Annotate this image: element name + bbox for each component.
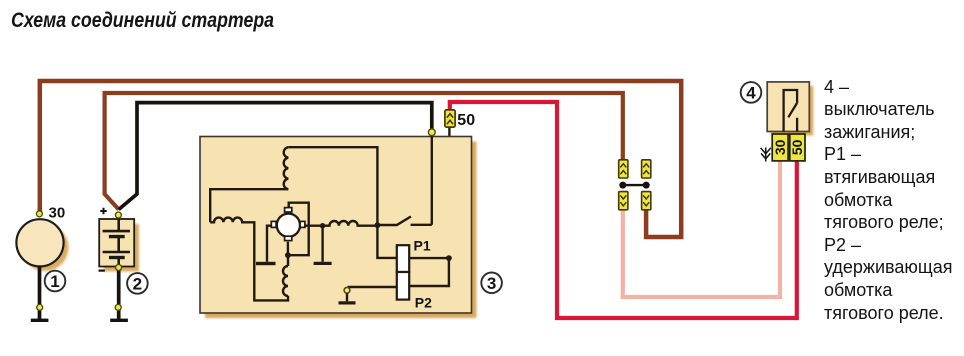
- battery plate long bottom: [103, 251, 130, 254]
- node ground joint 1: [37, 304, 43, 310]
- ground relay: [339, 301, 356, 304]
- node right brush ground tap: [320, 223, 325, 228]
- ground under generator: [31, 319, 49, 322]
- wire ignition-feed inside starter: [431, 134, 433, 225]
- ignition switch body (component 4): [767, 82, 809, 132]
- wire brown generator-to-connector (outer): [40, 81, 681, 237]
- node joint 50-black (yellow): [428, 129, 435, 136]
- node battery minus: [116, 265, 122, 271]
- ground under battery: [110, 319, 128, 322]
- wire field-winding top run: [288, 147, 397, 258]
- node battery plus: [115, 212, 121, 218]
- wire connector link: [623, 184, 646, 186]
- title: [11, 10, 274, 31]
- battery internal stubs: [117, 216, 120, 268]
- node motor bottom junction: [285, 252, 291, 258]
- legend text: [824, 76, 952, 325]
- generator G body (component 1): [16, 219, 63, 266]
- wire node50 to P2: [409, 258, 449, 286]
- node 50 junction: [446, 255, 452, 261]
- svg-text:3: 3: [487, 274, 496, 293]
- node connector left: [619, 182, 626, 189]
- generator G shadow: [21, 224, 68, 271]
- wire motor top loop: [288, 203, 309, 256]
- svg-text:4: 4: [746, 84, 756, 103]
- wire battery-to-ground: [117, 267, 121, 319]
- relay winding P2: [397, 272, 409, 300]
- wire P1 to node 50: [409, 257, 449, 259]
- label minus: [99, 270, 105, 272]
- motor M armature (circle with brushes): [271, 208, 305, 241]
- wire black battery-to-starter: [119, 103, 432, 210]
- connector 50 at starter: [445, 110, 455, 127]
- wire generator-to-ground: [38, 266, 42, 319]
- inductor field coil vertical top: [284, 147, 289, 189]
- wire black starter-50-lead: [448, 127, 450, 259]
- svg-text:Р2: Р2: [415, 295, 432, 311]
- svg-text:50: 50: [457, 112, 475, 129]
- bolt terminal to ground: [344, 287, 350, 293]
- terminal block 30: [772, 134, 788, 161]
- connector pair lower-left: [619, 192, 628, 210]
- wire motor bottom stem: [287, 242, 289, 255]
- node connector right: [643, 182, 650, 189]
- inductor field coil horizontal left: [210, 218, 288, 301]
- label circled 3: [481, 273, 502, 294]
- starter housing (component 3): [200, 137, 472, 314]
- label circled 1: [45, 271, 66, 292]
- node relay contact junction: [375, 222, 381, 228]
- svg-text:1: 1: [50, 272, 59, 291]
- wire brown battery-to-connector: [105, 93, 623, 210]
- inductor field coil vertical bottom: [283, 255, 288, 296]
- svg-text:Р1: Р1: [414, 238, 431, 254]
- wire red ignition-50-to-starter-50: [450, 102, 797, 318]
- battery body (component 2): [99, 219, 134, 267]
- svg-text:30: 30: [49, 205, 66, 222]
- ground right brush: [314, 262, 332, 265]
- harness branch symbol: [761, 148, 771, 162]
- label circled 4: [741, 82, 762, 103]
- battery shadow: [104, 224, 139, 272]
- battery plate short top: [109, 235, 125, 238]
- wire left brush to ground: [267, 226, 272, 262]
- wire coil link left: [210, 189, 288, 222]
- starter box shadow: [205, 142, 477, 319]
- wire right brush run: [305, 221, 378, 226]
- relay contact blade: [377, 217, 411, 226]
- label circled 2: [127, 273, 148, 294]
- connector pair upper-right: [642, 160, 651, 178]
- node terminal 30 of generator: [36, 211, 42, 217]
- terminal block 50: [789, 134, 805, 161]
- battery plate long top: [103, 230, 130, 233]
- label plus: [100, 208, 106, 214]
- connector pair upper-left: [619, 160, 628, 178]
- wire P2 to bolt terminal: [348, 286, 397, 288]
- ignition switch contact symbol: [784, 90, 798, 132]
- wire pink connector-to-ignition-30: [623, 161, 780, 297]
- battery plate short bottom: [109, 256, 125, 259]
- connector pair lower-right: [642, 192, 651, 210]
- relay contact fixed: [411, 224, 432, 226]
- svg-text:50: 50: [789, 139, 805, 155]
- ground left brush: [256, 262, 276, 265]
- relay winding P1: [397, 245, 409, 272]
- node ground joint 2: [115, 304, 121, 310]
- wire bolt stem: [346, 293, 348, 301]
- wire ground stem right: [321, 226, 323, 262]
- svg-text:2: 2: [133, 275, 142, 294]
- ignition switch shadow: [771, 86, 813, 136]
- svg-text:30: 30: [772, 139, 788, 155]
